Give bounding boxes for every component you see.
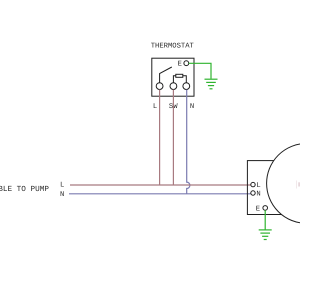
wire earth (E to ground, green) (189, 63, 211, 79)
pump M1 (motor circle) (267, 144, 320, 224)
svg-text:THERMOSTAT: THERMOSTAT (151, 43, 195, 51)
terminal L (pump) (251, 182, 255, 186)
resistor R1 body (176, 74, 183, 77)
ground (top right) (205, 79, 218, 89)
switch SW1 (thermostat contact) (160, 67, 172, 83)
svg-text:N: N (60, 191, 64, 199)
terminal L (thermostat) (156, 83, 163, 90)
pump terminal box (247, 161, 284, 215)
svg-text:L: L (60, 181, 64, 189)
terminal SW (thermostat) (170, 83, 177, 90)
svg-text:CABLE TO PUMP: CABLE TO PUMP (0, 185, 49, 194)
terminal E (pump) (263, 206, 268, 211)
svg-text:E: E (256, 205, 260, 213)
svg-text:N: N (256, 191, 260, 199)
svg-text:E: E (178, 60, 182, 68)
wire L horizontal (red) (70, 184, 251, 186)
wire N horizontal (blue) (69, 193, 251, 195)
ground (bottom right) (259, 230, 272, 240)
thermostat box U1 (152, 58, 194, 96)
terminal E (thermostat) (184, 61, 189, 66)
terminal N (pump) (251, 191, 255, 195)
svg-text:L: L (153, 103, 157, 111)
svg-text:N: N (190, 103, 194, 111)
wire SW vertical (thermostat SW down, red) (172, 90, 174, 186)
svg-text:L: L (256, 182, 260, 190)
wire L vertical (thermostat L down, red) (159, 90, 161, 186)
resistor R1 (accelerator) leads (173, 76, 186, 83)
wire N vertical with hop over L (blue) (187, 90, 190, 194)
wire earth (pump E to ground, green) (264, 210, 266, 229)
terminal N (thermostat) (183, 83, 190, 90)
label PUMP (motor, clipped at image edge, faint) (296, 181, 297, 189)
